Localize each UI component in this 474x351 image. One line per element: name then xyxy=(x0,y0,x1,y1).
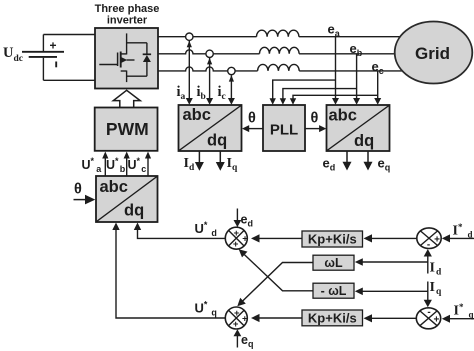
abc-dq current transform block xyxy=(179,105,242,151)
wire: theta arrow into inverse transform xyxy=(74,195,96,205)
wire: eb tap xyxy=(353,54,360,105)
battery Udc negative plate xyxy=(29,56,57,58)
svg-text:+: + xyxy=(233,239,239,250)
summing junction S2 (Uq) xyxy=(225,307,248,330)
summing junction S3 (Id error) xyxy=(417,228,441,250)
wire: battery top lead xyxy=(42,35,44,52)
grid source G1 xyxy=(395,22,473,84)
svg-text:ωL: ωL xyxy=(324,256,343,270)
current sensor circle phase C xyxy=(228,67,235,74)
diode D1 anode lead xyxy=(146,62,148,76)
svg-text:- ωL: - ωL xyxy=(321,284,347,298)
svg-text:dq: dq xyxy=(207,131,227,149)
wire: eb branch to PLL xyxy=(280,89,357,105)
PLL block xyxy=(263,105,305,151)
gain block wL xyxy=(313,255,354,270)
wire: phase A line xyxy=(158,36,257,38)
svg-text:θ: θ xyxy=(311,111,319,127)
svg-text:Kp+Ki/s: Kp+Ki/s xyxy=(308,232,357,247)
wire: eq output arrow xyxy=(364,151,373,171)
dq-abc inverse transform block xyxy=(96,176,158,222)
diode D1 triangle xyxy=(143,55,151,62)
transistor Q1 arrow xyxy=(121,57,135,63)
wire: Iq output arrow xyxy=(216,151,225,171)
current sensor circle phase B xyxy=(206,50,213,57)
transistor Q1 source lead xyxy=(126,71,128,83)
diode D1 top wire xyxy=(127,42,147,44)
wire: Id branch into wL xyxy=(355,258,428,266)
svg-text:+: + xyxy=(234,308,240,319)
wire: Iq feedback down into S4 xyxy=(424,282,432,308)
transistor Q1 drain lead xyxy=(126,33,128,54)
wire: phase B line to grid xyxy=(299,53,395,55)
wire: PI q output into S2 xyxy=(251,314,302,322)
wire: S4 to PI q xyxy=(364,314,417,322)
block arrow PWM to inverter xyxy=(113,90,140,108)
svg-text:θ: θ xyxy=(248,111,256,127)
diode D1 bottom wire xyxy=(127,75,147,77)
svg-text:+: + xyxy=(50,39,57,53)
wire: theta PLL to current transform xyxy=(242,125,263,132)
svg-text:Grid: Grid xyxy=(415,44,450,63)
wire: ea branch to PLL xyxy=(270,80,336,105)
wire: ic tap xyxy=(228,75,235,105)
svg-text:PLL: PLL xyxy=(270,122,298,139)
wire: S3 to PI d xyxy=(364,234,417,242)
wire: Uq ref from summer to transform xyxy=(112,223,225,319)
label: Three phase inverter title xyxy=(95,3,160,27)
wire: ia tap xyxy=(186,41,193,105)
diode D1 cathode bar xyxy=(143,53,151,55)
svg-text:+: + xyxy=(433,315,439,326)
wire: DC top rail xyxy=(43,34,95,36)
svg-text:-: - xyxy=(427,239,430,250)
wire: theta PLL to voltage transform xyxy=(305,125,326,132)
summing junction S1 (Ud) xyxy=(225,227,248,250)
svg-text:Kp+Ki/s: Kp+Ki/s xyxy=(308,311,357,326)
wire: Ua ref into PWM xyxy=(102,152,108,177)
wire: ib tap xyxy=(206,58,213,105)
wire: phase A line to grid xyxy=(299,36,401,38)
inductor La xyxy=(257,30,299,37)
svg-text:+: + xyxy=(242,313,248,324)
wire: battery bottom lead xyxy=(42,58,44,81)
svg-text:+: + xyxy=(434,235,440,246)
svg-text:+: + xyxy=(234,228,240,239)
wire: eq feedforward into S2 xyxy=(234,329,242,347)
wire: ed feedforward into S1 xyxy=(234,209,242,228)
wire: Uc ref into PWM xyxy=(145,152,151,177)
svg-text:abc: abc xyxy=(329,106,357,124)
svg-text:abc: abc xyxy=(100,178,128,196)
gain block -wL xyxy=(313,283,354,298)
wire: Id feedback up into S3 xyxy=(424,249,432,274)
wire: wL output to S2 xyxy=(237,263,313,307)
inverter block U1 xyxy=(95,28,158,89)
wire: Ub ref into PWM xyxy=(124,152,130,177)
diode D1 cathode lead xyxy=(146,43,148,55)
abc-dq voltage transform block xyxy=(327,105,390,151)
summing junction S4 (Iq error) xyxy=(416,307,440,329)
wire: ec branch to PLL xyxy=(290,95,378,105)
wire: ea tap xyxy=(332,37,339,105)
wire: Id ref input xyxy=(442,234,474,242)
wire: DC bottom rail xyxy=(43,79,95,81)
svg-text:dq: dq xyxy=(124,202,144,220)
wire: Iq ref input xyxy=(442,315,474,323)
wire: -wL output to S1 xyxy=(239,249,313,291)
label: minus terminal tick xyxy=(55,62,57,68)
battery Udc positive plate xyxy=(22,51,64,53)
wire: Id output arrow xyxy=(195,151,204,171)
svg-text:inverter: inverter xyxy=(107,15,148,27)
svg-text:Three phase: Three phase xyxy=(95,3,160,15)
PI controller d-axis xyxy=(302,231,363,247)
wire: Ud ref from summer to transform xyxy=(134,223,226,239)
wire: phase C line with hops xyxy=(158,67,258,71)
wire: Iq branch into -wL xyxy=(355,288,428,296)
transistor Q1 source stub xyxy=(121,70,127,72)
wire: PI d output into S1 xyxy=(251,234,302,242)
svg-text:PWM: PWM xyxy=(106,119,149,139)
svg-text:dq: dq xyxy=(354,132,374,150)
transistor Q1 channel bar xyxy=(120,52,122,68)
transistor Q1 gate bar xyxy=(117,53,119,67)
transistor Q1 gate lead xyxy=(99,64,117,66)
svg-text:abc: abc xyxy=(183,106,211,124)
svg-text:+: + xyxy=(242,234,248,245)
inductor Lc xyxy=(258,64,300,71)
current sensor circle phase A xyxy=(186,33,193,40)
wire: ed output arrow xyxy=(343,151,352,171)
svg-text:+: + xyxy=(233,319,239,330)
inductor Lb xyxy=(260,47,300,54)
PWM block xyxy=(95,108,158,151)
wire: phase C line to grid xyxy=(299,70,402,72)
svg-text:θ: θ xyxy=(74,182,82,198)
svg-text:-: - xyxy=(427,307,430,318)
wire: phase B line with hop xyxy=(158,50,260,54)
wire: ec tap xyxy=(374,71,381,105)
PI controller q-axis xyxy=(302,310,363,326)
transistor Q1 drain stub xyxy=(121,53,127,55)
